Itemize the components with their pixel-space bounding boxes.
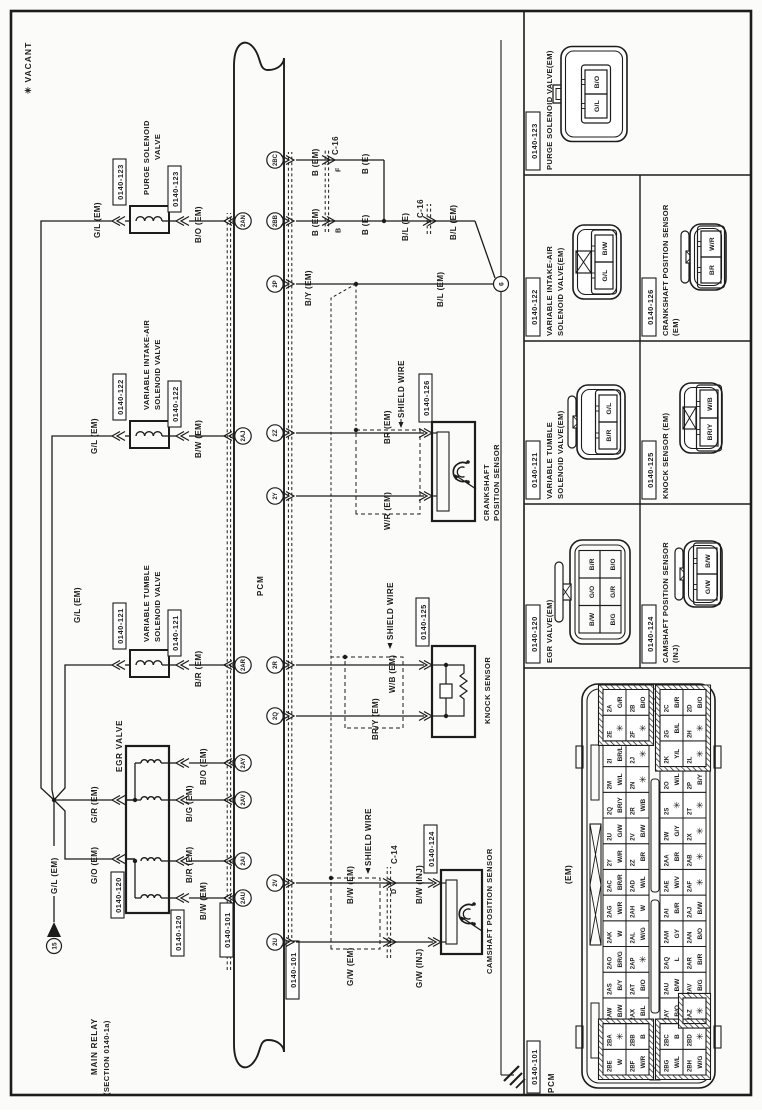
wire BR/Y(EM) to knock sensor [296,715,424,717]
chevrons at pin 2R [286,661,294,670]
svg-text:2BC: 2BC [273,153,279,166]
connector C-14 chevrons [388,938,396,947]
svg-text:15: 15 [52,942,59,950]
svg-text:2AD: 2AD [631,879,637,892]
svg-text:B (EM): B (EM) [311,208,320,236]
svg-text:G/R: G/R [610,586,617,598]
connector face intake-air valve [573,225,621,299]
svg-text:GY: GY [674,928,681,938]
connector C-16 chevrons (pin F) [327,156,335,165]
wire into purge coil [125,220,130,222]
svg-text:W/V: W/V [674,875,681,888]
svg-text:✳: ✳ [695,878,705,886]
arrow to shield wire caption (camshaft) [366,868,371,874]
sensor connector chevrons 2R wire [424,661,432,670]
svg-text:2P: 2P [688,782,694,789]
EGR coil 4 [141,895,161,898]
wire: G/O branch down to EGR valve [54,800,112,859]
PCM box lower edge [283,58,285,1052]
wire EGR B/R (EM) to PCM pin 2AI [169,860,176,862]
knock sensor node B [444,714,448,718]
arrow to shield wire caption [400,419,402,427]
svg-text:2BG: 2BG [665,1059,671,1072]
svg-text:2L: 2L [688,756,694,763]
svg-text:2Z: 2Z [273,429,279,436]
svg-text:0140-126: 0140-126 [646,289,655,325]
svg-text:0140-121: 0140-121 [116,608,125,644]
svg-text:2AI: 2AI [665,908,671,918]
wire intake-air to PCM [169,435,176,437]
PCM pin 2AJ [235,428,251,444]
svg-text:2BA: 2BA [608,1034,614,1047]
connector C-16 chevrons (pin B) [327,217,335,226]
svg-text:2J: 2J [631,757,637,764]
PCM connector face outline [582,684,715,1088]
svg-text:2AI: 2AI [241,856,247,866]
svg-text:B/L (E): B/L (E) [401,213,410,241]
wire EGR B/G (EM) to PCM pin 2AV [169,799,176,801]
sensor connector chevrons 2Z wire [424,429,432,438]
svg-text:2Q: 2Q [273,712,279,720]
svg-text:B (E): B (E) [361,153,370,174]
svg-text:(INJ): (INJ) [671,644,680,663]
camshaft pickup symbol [459,905,473,924]
svg-text:2O: 2O [665,781,671,789]
svg-text:2AO: 2AO [608,957,614,970]
chevrons at pin 2U [286,938,294,947]
wire tumble to PCM [169,664,176,666]
svg-text:G/W: G/W [705,580,712,595]
label 0140-120 (PCM side) [171,910,184,956]
svg-text:MAIN RELAY: MAIN RELAY [90,1018,99,1075]
svg-text:SHIELD WIRE: SHIELD WIRE [386,582,395,640]
svg-text:(SECTION 0140-1a): (SECTION 0140-1a) [102,1020,111,1095]
connector chevrons G/R feed [112,796,120,805]
svg-text:0140-101: 0140-101 [223,912,232,948]
svg-text:B/R: B/R [606,429,613,441]
EGR coil 1 [141,760,161,763]
PCM continuation curl right [234,43,284,70]
PCM pin 2Z [267,425,283,441]
svg-text:✳: ✳ [638,775,648,783]
PCM connector pin grid [603,1049,626,1075]
label 0140-101 below PCM bottom edge [286,941,299,999]
svg-text:BR (EM): BR (EM) [383,410,392,444]
svg-text:0140-120: 0140-120 [114,877,123,913]
svg-text:G/L: G/L [594,100,601,112]
svg-text:B/W: B/W [697,901,704,915]
svg-text:BR/G: BR/G [617,951,624,967]
PCM connector dashed lines (bottom) [287,152,289,994]
svg-text:W: W [617,930,624,937]
connector face EGR valve (6 cavities) [570,540,630,644]
svg-text:2AJ: 2AJ [688,907,694,918]
svg-text:B/Y (EM): B/Y (EM) [304,270,313,306]
purge solenoid valve coil [130,206,169,233]
svg-text:2E: 2E [608,731,614,738]
svg-text:2X: 2X [688,833,694,840]
svg-text:B/W: B/W [640,824,647,838]
strip label 0140-121 [526,441,540,499]
EGR coil 2 [141,797,161,800]
svg-text:2AR: 2AR [241,658,247,671]
svg-text:B/G (EM): B/G (EM) [185,785,194,822]
svg-text:KNOCK SENSOR (EM): KNOCK SENSOR (EM) [661,413,670,499]
svg-text:6: 6 [499,282,506,286]
svg-text:B/L: B/L [674,723,681,734]
svg-text:0140-122: 0140-122 [530,289,539,325]
knock sensor body [432,646,475,737]
svg-text:2AM: 2AM [665,931,671,944]
svg-text:W/R: W/R [640,1055,647,1068]
label 0140-121 (feed side) [113,603,126,649]
svg-text:C-16: C-16 [331,136,340,155]
chevrons at pin 2Y [286,492,294,501]
svg-text:G/R: G/R [617,696,624,708]
knock sensor shield (dashed) [345,657,403,728]
svg-text:2AF: 2AF [688,880,694,892]
variable intake-air solenoid valve coil [130,421,169,448]
crankshaft sensor shield (dashed) [356,430,420,514]
svg-text:2U: 2U [273,938,279,946]
wire EGR B/O (EM) to PCM pin 2AY [169,762,176,764]
svg-text:2BE: 2BE [608,1060,614,1072]
svg-text:W/G: W/G [697,1056,704,1069]
chevrons at pin 2P [286,280,294,289]
connector chevrons tumble feed [112,661,120,670]
wire B/W(EM)/B/W(INJ) to camshaft sensor [296,882,433,884]
svg-text:2AE: 2AE [665,880,671,892]
svg-text:2BF: 2BF [631,1060,637,1072]
crankshaft shield corner node [354,428,358,432]
svg-text:2H: 2H [688,730,694,738]
svg-text:W/L: W/L [617,773,624,785]
svg-text:0140-120: 0140-120 [530,616,539,652]
svg-text:0140-124: 0140-124 [646,616,655,652]
wire 2BC joins 2BB [383,160,385,221]
svg-text:W/L: W/L [640,876,647,888]
strip label 0140-126 [642,278,656,336]
svg-text:VALVE: VALVE [153,134,162,160]
EGR valve body [126,746,169,913]
divider between diagram and connector-view strip [523,11,525,1095]
svg-text:B/R: B/R [674,696,681,708]
hatched frame pins 2A/2B/2E/2F [599,685,654,745]
svg-text:2AA: 2AA [665,854,671,867]
svg-text:B/R: B/R [674,902,681,914]
knock shield corner node [343,655,347,659]
svg-text:EGR VALVE(EM): EGR VALVE(EM) [545,599,554,663]
shield drain dashed wire to crankshaft sensor shield [355,284,357,426]
svg-text:G/O (EM): G/O (EM) [90,847,99,884]
svg-text:PCM: PCM [256,575,265,596]
svg-text:2AP: 2AP [631,958,637,970]
svg-text:2U: 2U [608,833,614,841]
svg-text:B/O: B/O [640,697,647,709]
crankshaft position sensor body [432,422,475,521]
camshaft sensor connector strip [446,880,457,944]
svg-text:W/L: W/L [674,1056,681,1068]
flow arrow from main relay [47,922,61,937]
svg-text:✳: ✳ [695,801,705,809]
svg-text:✳: ✳ [695,852,705,860]
EGR internal bus to coil B/W [134,861,136,898]
svg-text:BR: BR [709,265,716,275]
svg-text:W/R (EM): W/R (EM) [383,492,392,530]
wire B(EM) from 2BC [296,159,384,161]
svg-text:W/B: W/B [640,798,647,811]
svg-text:G/W (EM): G/W (EM) [346,947,355,986]
svg-text:0140-125: 0140-125 [646,452,655,488]
svg-text:2V: 2V [631,833,637,840]
camshaft position sensor body [441,870,482,954]
svg-text:2AN: 2AN [688,931,694,943]
C-16 inline connector dashed line [426,204,428,234]
hatched frame pin 2AZ [679,993,711,1028]
PCM pin 2AR [235,657,251,673]
svg-text:PCM: PCM [547,1073,556,1093]
PCM pin 2AN [235,213,251,229]
C-14 inline connector dashed line [386,867,388,958]
chevrons at pin 2V [286,879,294,888]
svg-text:B/O (EM): B/O (EM) [194,206,203,243]
connector face knock sensor [680,383,722,453]
svg-text:2AL: 2AL [631,932,637,944]
svg-text:2G: 2G [665,730,671,738]
svg-text:W/R: W/R [617,901,624,914]
svg-text:2Q: 2Q [608,807,614,815]
svg-text:2Y: 2Y [608,859,614,866]
svg-text:2V: 2V [273,879,279,886]
svg-text:SOLENOID VALVE: SOLENOID VALVE [153,339,162,410]
svg-text:2BB: 2BB [631,1034,637,1047]
svg-text:0140-121: 0140-121 [171,615,180,651]
PCM pin 2Y [267,488,283,504]
svg-text:BR/Y: BR/Y [617,797,624,813]
svg-text:2M: 2M [608,781,614,789]
svg-text:2A: 2A [608,704,614,712]
svg-text:0140-122: 0140-122 [171,386,180,422]
svg-text:B/L: B/L [640,1006,647,1017]
label 0140-122 (feed side) [113,374,126,420]
hatched frame pins 2BA/2BB/2BE/2BF [599,1019,654,1079]
svg-text:2BC: 2BC [665,1034,671,1047]
svg-text:B (EM): B (EM) [311,148,320,176]
svg-text:2S: 2S [665,808,671,815]
svg-text:VARIABLE TUMBLE: VARIABLE TUMBLE [545,422,554,499]
svg-text:G/L (EM): G/L (EM) [73,587,82,623]
svg-text:2D: 2D [688,704,694,712]
C-16 inline connector dashed line (2BC/2BB) [324,148,326,232]
svg-text:✳: ✳ [638,750,648,758]
svg-text:✳: ✳ [695,1032,705,1040]
label 0140-121 (PCM side) [168,610,181,656]
svg-text:B/R (EM): B/R (EM) [194,650,203,687]
svg-text:2P: 2P [273,280,279,287]
svg-text:W/L: W/L [674,773,681,785]
svg-text:2T: 2T [688,808,694,815]
svg-text:✳: ✳ [638,955,648,963]
svg-text:✳ VACANT: ✳ VACANT [23,42,33,94]
sensor connector chevrons 2U wire [433,938,441,947]
svg-text:BR/Y: BR/Y [707,423,714,440]
svg-text:B/W: B/W [589,612,596,626]
svg-text:✳: ✳ [695,724,705,732]
wire B/R to PCM pin 2AR [189,664,226,666]
crankshaft pickup symbol [453,463,467,482]
strip label 0140-120 [526,605,540,663]
chevrons at pin 2BC [286,156,294,165]
PCM box upper edge [233,66,235,1044]
svg-text:D: D [391,889,398,894]
svg-text:0140-122: 0140-122 [116,379,125,415]
svg-text:B/W (EM): B/W (EM) [346,866,355,904]
svg-text:0140-121: 0140-121 [530,452,539,488]
svg-text:2AS: 2AS [608,983,614,995]
camshaft shield corner node [329,876,333,880]
ground bus drop at left [501,1074,514,1076]
svg-text:B/L (EM): B/L (EM) [449,205,458,241]
strip label 0140-122 [526,278,540,336]
strip label 0140-125 [642,441,656,499]
wire G/W(EM)/G/W(INJ) to camshaft sensor [296,941,433,943]
connector chevrons G/O feed [112,855,120,864]
label 0140-120 (feed side) [111,872,124,918]
wire to fan junction [53,802,55,846]
wire W/R(EM) to crankshaft sensor [296,495,424,497]
svg-text:B/O: B/O [697,928,704,940]
PCM pin 2R [267,657,283,673]
svg-text:2C: 2C [665,704,671,712]
svg-text:C-14: C-14 [390,845,399,864]
svg-text:B/R: B/R [697,953,704,965]
wire EGR B/W (EM) to PCM pin 2AU [169,897,176,899]
svg-text:✳: ✳ [695,827,705,835]
wire: supply rail to variable tumble valve [54,665,112,800]
variable tumble solenoid valve coil [130,650,169,677]
svg-text:0140-124: 0140-124 [427,831,436,867]
svg-text:2AN: 2AN [241,215,247,227]
svg-text:B/Y: B/Y [617,979,624,991]
svg-text:Y/L: Y/L [674,749,681,759]
shield drain dashed wire to knock/camshaft shields [331,284,356,874]
svg-text:✳: ✳ [615,724,625,732]
svg-text:SOLENOID VALVE: SOLENOID VALVE [153,571,162,642]
dashed drop to knock shield [331,656,345,658]
svg-text:(EM): (EM) [671,318,680,336]
svg-text:G/Y: G/Y [674,825,681,837]
svg-text:2AQ: 2AQ [665,957,671,970]
shield drain junction on 2P wire [354,282,358,286]
svg-text:B: B [674,1034,681,1039]
svg-text:0140-120: 0140-120 [174,915,183,951]
svg-text:2W: 2W [665,831,671,840]
svg-text:2R: 2R [631,807,637,815]
connector C-16 chevrons [428,217,436,226]
svg-text:W/G: W/G [640,927,647,940]
svg-text:2AV: 2AV [241,794,247,805]
svg-text:VARIABLE TUMBLE: VARIABLE TUMBLE [142,565,151,642]
connector C-14 chevrons (pin D) [388,879,396,888]
connector chevrons intake-air feed [112,432,120,441]
camshaft sensor shield (dashed) [331,878,380,949]
PCM pin 2Q [267,708,283,724]
svg-text:B: B [336,228,343,233]
chevrons at pin 2BB [286,217,294,226]
svg-text:SHIELD WIRE: SHIELD WIRE [397,360,406,418]
resistor loop [446,665,467,716]
wire B/Y / B/L from 2P to ground [296,283,494,285]
EGR coil 3 [141,858,161,861]
knock piezo rail [445,665,447,716]
svg-text:B/W: B/W [617,1004,624,1018]
label 0140-123 (purge, feed side) [113,159,126,205]
svg-text:B/W: B/W [602,241,609,255]
arrow to shield wire caption (knock) [388,643,393,649]
svg-text:✳: ✳ [615,1032,625,1040]
chevrons at pin 2Z [286,429,294,438]
label 0140-101 above PCM top edge [220,903,233,957]
svg-text:2AJ: 2AJ [241,430,247,441]
PCM pin 2U [267,934,283,950]
svg-text:B/O: B/O [594,76,601,89]
svg-text:2BD: 2BD [688,1034,694,1047]
wire from relay arrow [53,896,55,922]
supply fan junction [52,798,56,802]
svg-text:2Z: 2Z [631,859,637,866]
svg-text:2Y: 2Y [273,492,279,499]
svg-text:B/W: B/W [674,978,681,992]
connector face tumble valve [568,396,576,448]
svg-text:F: F [336,167,343,172]
svg-text:2K: 2K [665,755,671,763]
svg-text:B/W (EM): B/W (EM) [194,420,203,458]
svg-text:2AB: 2AB [688,854,694,867]
svg-text:2AK: 2AK [608,931,614,944]
strip cell dividers [524,667,751,669]
connector face camshaft sensor [675,548,683,600]
svg-text:B/L (EM): B/L (EM) [436,272,445,308]
svg-text:B/G: B/G [697,979,704,991]
label 0140-123 (purge, PCM side) [168,166,181,212]
PCM pin 2P [267,276,283,292]
wire purge to PCM [169,220,176,222]
svg-text:B/O (EM): B/O (EM) [199,748,208,785]
svg-text:W/R: W/R [617,850,624,863]
svg-text:2B: 2B [631,704,637,712]
svg-text:BR: BR [674,852,681,862]
svg-text:2BB: 2BB [273,214,279,227]
svg-text:0140-101: 0140-101 [289,952,298,988]
svg-text:SOLENOID VALVE(EM): SOLENOID VALVE(EM) [556,410,565,499]
chevrons at pin 2Q [286,712,294,721]
svg-text:G/R (EM): G/R (EM) [90,786,99,823]
strip label 0140-124 [642,605,656,663]
svg-text:G/W (INJ): G/W (INJ) [415,948,424,988]
PCM connector chevrons 2AN [224,217,232,226]
chassis ground symbol [504,1066,519,1081]
svg-text:SHIELD WIRE: SHIELD WIRE [364,808,373,866]
label 0140-122 (PCM side) [168,381,181,427]
svg-text:W/B (EM): W/B (EM) [388,655,397,693]
connector ref circle 15 [47,939,62,954]
wire B/W to PCM pin 2AJ [189,435,226,437]
svg-text:2F: 2F [631,731,637,738]
svg-text:W: W [640,904,647,911]
svg-text:W/R: W/R [709,237,716,251]
svg-text:0140-123: 0140-123 [171,171,180,207]
ground reference circle 6 [494,277,509,292]
